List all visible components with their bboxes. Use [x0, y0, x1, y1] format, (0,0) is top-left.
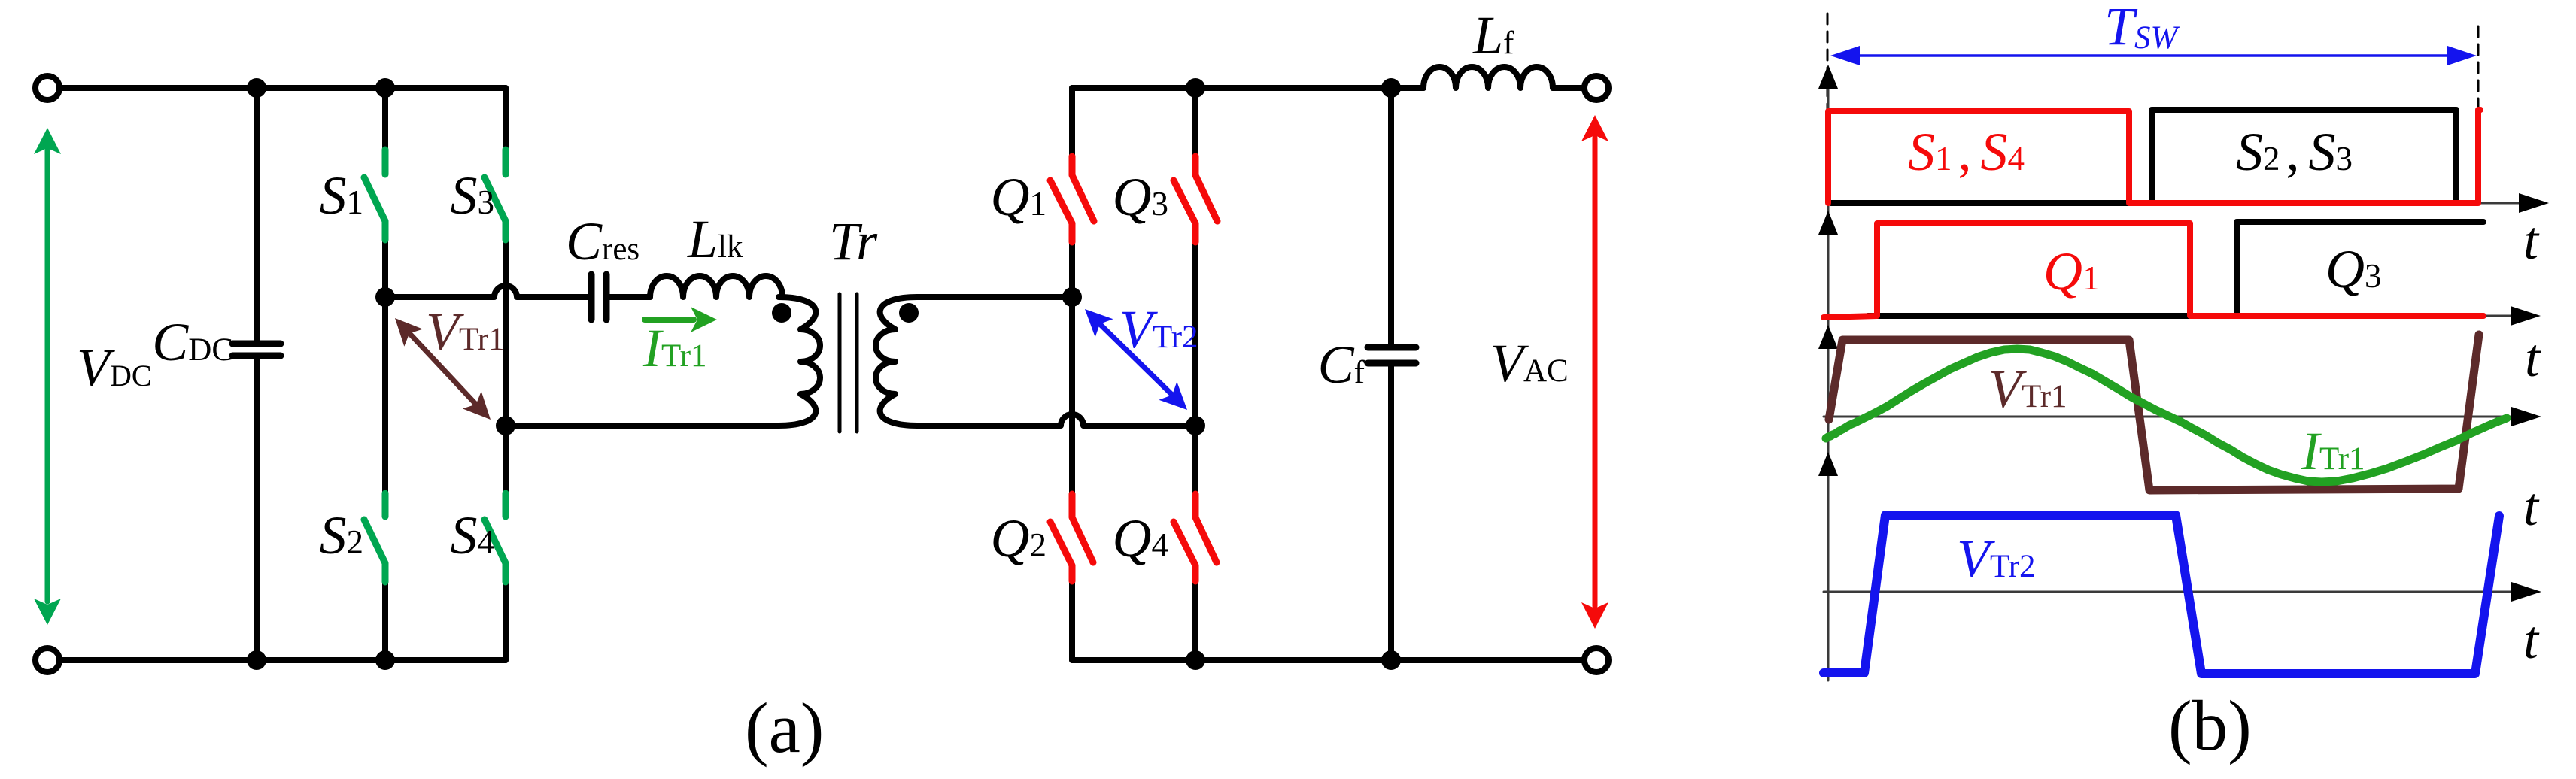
V_Tr1 maroon double arrow	[395, 318, 491, 420]
wire secondary top to node C	[917, 294, 1072, 300]
wire Q4 top	[1192, 426, 1198, 494]
inductor L_lk	[650, 276, 782, 297]
vertical axis line	[1827, 71, 1830, 680]
wire node A to C_res with hop over S3 leg	[385, 286, 588, 297]
wire C_res to L_lk	[609, 294, 650, 300]
node top rail / C_f leg	[1381, 78, 1401, 98]
terminal DC bottom	[35, 648, 59, 672]
S row t axis	[2478, 202, 2520, 205]
dashed line right	[2477, 26, 2480, 135]
dashed line left	[1827, 14, 1829, 110]
wire S1 top	[382, 88, 388, 150]
V_Tr1 maroon waveform	[1829, 335, 2479, 490]
node bottom rail / Q4 leg	[1186, 650, 1205, 670]
svg-text:S2,S3: S2,S3	[2236, 122, 2353, 182]
wire bottom rail left bridge	[59, 657, 506, 663]
wire Q2 bottom	[1069, 581, 1075, 660]
wire Q3 bottom to node D	[1192, 242, 1198, 426]
wire S2 bottom	[382, 582, 388, 660]
S2,S3 black waveform	[1831, 110, 2461, 203]
node C Q1-Q2 midpoint	[1062, 287, 1082, 307]
svg-text:(a): (a)	[745, 688, 824, 768]
wire Q1 top	[1069, 88, 1075, 156]
inductor L_f	[1423, 67, 1553, 88]
transformer secondary polarity dot	[899, 303, 919, 323]
terminal circles	[35, 76, 1608, 672]
transformer secondary winding	[876, 297, 917, 426]
svg-text:(b): (b)	[2168, 686, 2252, 765]
wire S3 bottom to node B	[503, 240, 509, 426]
svg-text:t: t	[2523, 211, 2540, 271]
terminal DC top	[35, 76, 59, 100]
wire S3 top	[503, 88, 509, 150]
node bottom rail / C_f leg	[1381, 650, 1401, 670]
switch Q2	[1050, 494, 1093, 581]
node A S1-S2 midpoint	[375, 287, 395, 307]
capacitor C_f	[1368, 347, 1416, 363]
transformer primary polarity dot	[772, 303, 791, 323]
svg-text:t: t	[2523, 610, 2540, 670]
axis arrow S row	[1818, 65, 1838, 89]
capacitor C_DC	[232, 344, 281, 356]
V_DC green double arrow	[34, 128, 61, 625]
terminal AC top	[1584, 76, 1608, 100]
wire C_DC leg lower	[254, 359, 260, 660]
wire S2 top	[382, 297, 388, 493]
switch S2	[364, 493, 385, 582]
Q1 red waveform	[1824, 223, 2483, 317]
switch S1	[364, 150, 385, 240]
V_Tr2 blue waveform	[1824, 515, 2499, 674]
V_Tr2 blue double arrow	[1085, 309, 1187, 410]
I_Tr1 green waveform	[1826, 349, 2507, 482]
svg-text:Tr: Tr	[829, 211, 878, 271]
switch Q4	[1174, 494, 1217, 581]
switch Q1	[1050, 156, 1094, 242]
capacitor C_res	[591, 274, 606, 320]
wire top rail left bridge	[59, 85, 506, 91]
transformer core	[840, 294, 857, 432]
wire C_f leg lower	[1388, 366, 1394, 660]
wire L_f to output terminal	[1553, 85, 1584, 91]
node top rail / S1 leg	[375, 78, 395, 98]
Q3 black waveform	[1868, 222, 2483, 316]
wire right bridge bottom rail	[1072, 657, 1584, 663]
svg-text:t: t	[2525, 328, 2541, 388]
wire Q2 top	[1069, 297, 1075, 494]
switch Q3	[1174, 156, 1217, 242]
S1,S4 red waveform	[1828, 110, 2480, 203]
terminal AC bottom	[1584, 648, 1608, 672]
wire Q4 bottom	[1192, 581, 1198, 660]
wire S4 top	[503, 426, 509, 493]
node D Q3-Q4 midpoint	[1186, 416, 1205, 435]
transformer primary winding	[779, 297, 820, 426]
wire Q1 bottom to node C	[1069, 242, 1075, 297]
node top rail / Q3 leg	[1186, 78, 1205, 98]
V_AC red double arrow	[1581, 115, 1608, 629]
wire C_DC leg upper	[254, 88, 260, 341]
axis arrow Q row	[1818, 211, 1838, 235]
svg-text:t: t	[2523, 477, 2540, 537]
I_Tr1 green arrow	[645, 307, 717, 332]
node bottom rail / S2 leg	[375, 650, 395, 670]
VTr1 row zero axis	[1824, 416, 2514, 418]
svg-text:S1,S4: S1,S4	[1908, 122, 2025, 182]
wire right bridge top rail	[1072, 85, 1423, 91]
wire S1 bottom to node A	[382, 240, 388, 297]
node B S3-S4 midpoint	[496, 416, 515, 435]
axis arrow VTr1 row	[1818, 325, 1838, 349]
VTr2 row zero axis	[1824, 591, 2514, 593]
wire Q3 top	[1192, 88, 1198, 156]
Q row t axis	[2483, 315, 2513, 317]
T_SW double arrow	[1830, 46, 2477, 65]
node top rail / C_DC	[247, 78, 266, 98]
wire node B to transformer primary bottom	[506, 423, 779, 429]
wire secondary bottom with hop over Q1 leg to node D	[917, 414, 1195, 426]
switch S3	[485, 150, 506, 240]
wire S4 bottom	[503, 582, 509, 660]
axis arrow VTr2 row	[1818, 452, 1838, 476]
switch S4	[485, 493, 506, 582]
wire C_f leg upper	[1388, 88, 1394, 344]
node bottom rail / C_DC	[247, 650, 266, 670]
